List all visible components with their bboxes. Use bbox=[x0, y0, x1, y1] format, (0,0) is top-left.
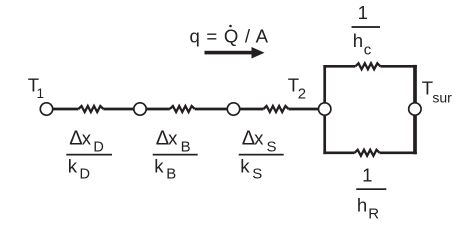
wire node2 to R2 bbox=[140, 108, 170, 111]
wire: left vertical of parallel loop bbox=[323, 65, 326, 154]
svg-text:h: h bbox=[357, 195, 367, 216]
wire R2 to node3 bbox=[195, 108, 234, 111]
wire T1 to R1 bbox=[47, 108, 79, 111]
svg-text:k: k bbox=[68, 155, 78, 176]
node T1 bbox=[40, 103, 52, 115]
svg-text:D: D bbox=[93, 139, 103, 155]
resistor R3 (conduction, siding) bbox=[264, 106, 289, 112]
wire R3 to node T2 bbox=[289, 108, 325, 111]
dot above Q bbox=[229, 25, 232, 28]
svg-text:c: c bbox=[364, 41, 372, 58]
svg-text:B: B bbox=[166, 165, 176, 182]
resistor R1 (conduction, drywall) bbox=[78, 106, 103, 112]
svg-text:x: x bbox=[254, 127, 264, 148]
svg-text:R: R bbox=[368, 205, 379, 222]
fraction bar 1 bbox=[66, 154, 112, 156]
node T2 bbox=[319, 103, 331, 115]
svg-text:1: 1 bbox=[37, 86, 45, 101]
node between R2 and R3 bbox=[227, 103, 239, 115]
resistor convection 1/hc bbox=[355, 63, 380, 69]
svg-text:1: 1 bbox=[358, 2, 368, 23]
wire R1 to node2 bbox=[103, 108, 140, 111]
svg-text:x: x bbox=[82, 127, 92, 148]
svg-text:2: 2 bbox=[298, 86, 306, 103]
svg-text:1: 1 bbox=[362, 164, 372, 185]
svg-text:q = Q / A: q = Q / A bbox=[190, 25, 269, 46]
svg-text:S: S bbox=[267, 138, 277, 155]
node Tsur bbox=[409, 103, 421, 115]
svg-text:T: T bbox=[422, 78, 433, 99]
fraction bar 2 bbox=[153, 154, 198, 156]
wire: top-right segment of loop bbox=[380, 65, 416, 68]
heat flux arrow bbox=[205, 47, 265, 59]
svg-text:h: h bbox=[353, 30, 363, 51]
svg-text:Δ: Δ bbox=[242, 127, 255, 149]
wire: right vertical of loop (thick) bbox=[413, 65, 417, 154]
svg-text:sur: sur bbox=[432, 89, 452, 105]
svg-text:k: k bbox=[154, 155, 164, 176]
fraction bar 3 bbox=[239, 154, 284, 156]
fraction bar hR bbox=[356, 188, 386, 190]
fraction bar hc bbox=[352, 26, 381, 28]
svg-text:S: S bbox=[252, 165, 262, 182]
svg-text:B: B bbox=[181, 138, 191, 155]
resistor radiation 1/hR bbox=[355, 150, 380, 156]
wire: top-left segment of loop bbox=[323, 65, 355, 68]
svg-text:D: D bbox=[80, 166, 90, 182]
resistor R2 (conduction, insulation) bbox=[170, 106, 195, 112]
wire: bottom-left segment of loop bbox=[323, 151, 354, 154]
svg-text:k: k bbox=[240, 155, 250, 176]
svg-text:x: x bbox=[168, 127, 178, 148]
svg-text:Δ: Δ bbox=[69, 127, 82, 149]
wire node3 to R3 bbox=[234, 108, 264, 111]
node between R1 and R2 bbox=[134, 103, 146, 115]
svg-text:Δ: Δ bbox=[156, 127, 169, 149]
wire: bottom-right segment of loop bbox=[380, 151, 417, 154]
